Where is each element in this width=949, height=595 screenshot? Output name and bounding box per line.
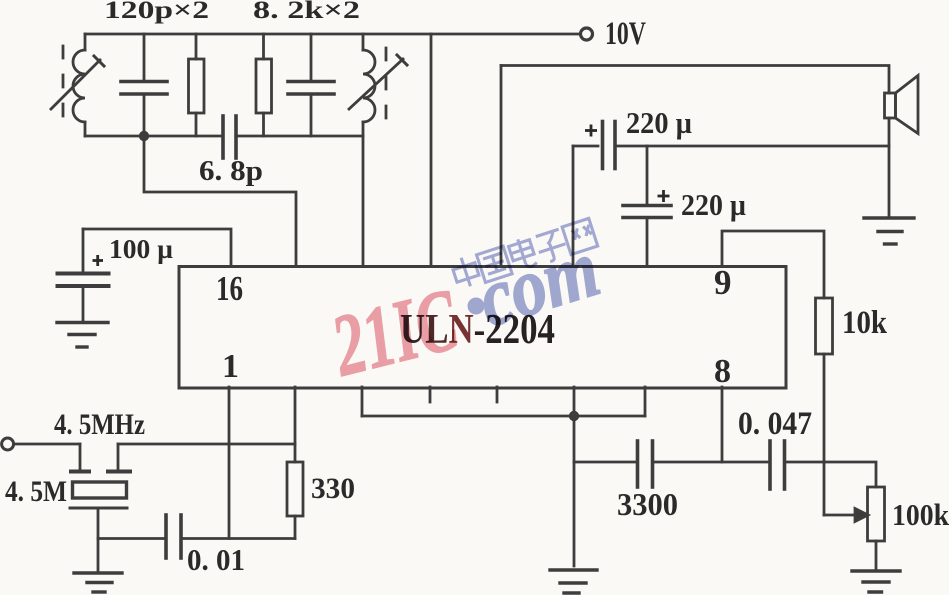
svg-text:1: 1 [222, 348, 239, 385]
capacitor 100u electrolytic [58, 229, 109, 323]
capacitor 220u (second, vertical) [623, 146, 671, 266]
ground under 100k [852, 571, 900, 592]
svg-text:120p×2: 120p×2 [104, 0, 209, 24]
wire IC pin to bus [361, 387, 364, 416]
wire input to resonator [14, 443, 80, 446]
node junction dot tank [139, 131, 149, 141]
wire second rail to IC top [500, 66, 503, 267]
potentiometer 100k [824, 487, 885, 571]
wire ground bus [362, 415, 645, 418]
svg-text:0. 047: 0. 047 [738, 406, 812, 442]
ground under speaker [864, 218, 914, 244]
ground under 100u [57, 323, 108, 348]
wire IC pin to ground [573, 387, 576, 566]
wire from tank junction to IC pin [144, 136, 296, 266]
wire IC pin to bus right [644, 387, 647, 416]
capacitor 120p (second) [288, 34, 334, 136]
wire top supply rail [85, 33, 578, 36]
capacitor 0.01 [166, 515, 295, 558]
wire pin 9 to 10k [722, 231, 824, 298]
svg-text:3300: 3300 [617, 486, 678, 522]
IC ULN-2204 box [179, 267, 786, 389]
resistor 8.2k (first) [189, 34, 205, 136]
wire tank bottom rail right [236, 135, 363, 138]
ground under resonator [74, 573, 122, 592]
node junction dot bus [569, 411, 579, 421]
wire to 0.01 [98, 537, 166, 540]
capacitor 120p (first) [121, 34, 167, 136]
capacitor 6.8p (series coupling) [223, 116, 236, 158]
resistor 8.2k (second) [256, 34, 272, 136]
svg-text:10V: 10V [605, 16, 646, 52]
svg-text:100k: 100k [892, 497, 949, 532]
watermark [322, 216, 609, 395]
svg-text:10k: 10k [842, 305, 888, 341]
svg-text:330: 330 [311, 472, 355, 505]
svg-text:6. 8p: 6. 8p [199, 155, 263, 187]
svg-text:4. 5MHz: 4. 5MHz [54, 408, 145, 441]
plus sign of 220u second [658, 190, 670, 202]
pin stub [429, 387, 432, 402]
svg-text:8. 2k×2: 8. 2k×2 [253, 0, 360, 24]
speaker [885, 76, 919, 219]
pin stub [496, 387, 499, 402]
wire top rail to IC top [430, 34, 433, 266]
svg-text:4. 5M: 4. 5M [5, 475, 67, 508]
svg-text:0. 01: 0. 01 [187, 542, 245, 577]
svg-text:220 µ: 220 µ [681, 187, 746, 222]
svg-text:220 µ: 220 µ [626, 105, 692, 140]
wire IC pin 8 down [721, 387, 724, 462]
wire IC pin 1 down [228, 387, 231, 539]
svg-text:16: 16 [216, 269, 243, 308]
watermark .com dot [468, 298, 485, 315]
capacitor 0.047 [770, 441, 876, 489]
svg-text:9: 9 [714, 263, 732, 302]
wire second rail to speaker [501, 66, 889, 94]
svg-text:8: 8 [714, 353, 731, 390]
wire from 100u to IC pin 16 [83, 229, 231, 266]
resistor 330 [287, 462, 303, 539]
plus sign of 220u first [585, 125, 597, 137]
ceramic resonator 4.5M [70, 444, 130, 508]
inductor L1 (tunable) [51, 34, 104, 136]
terminal input [2, 438, 14, 450]
watermark chinese characters [450, 216, 598, 291]
terminal 10V [581, 28, 593, 40]
wire tank bottom to IC top [362, 136, 365, 266]
inductor L2 (tunable) [349, 34, 407, 136]
wire IC pin to 330 [294, 387, 297, 462]
wire resonator output [118, 443, 295, 446]
capacitor 3300 [574, 441, 770, 487]
plus sign of 100u [93, 255, 104, 266]
wire resonator ground leg [97, 508, 100, 573]
ground under bus [550, 570, 597, 593]
svg-text:100 µ: 100 µ [109, 234, 173, 264]
resistor 10k [816, 298, 833, 515]
capacitor 220u (first, horizontal) [573, 122, 889, 169]
wire tank bottom rail left [85, 135, 223, 138]
wire 220u1 to IC top [572, 146, 575, 266]
